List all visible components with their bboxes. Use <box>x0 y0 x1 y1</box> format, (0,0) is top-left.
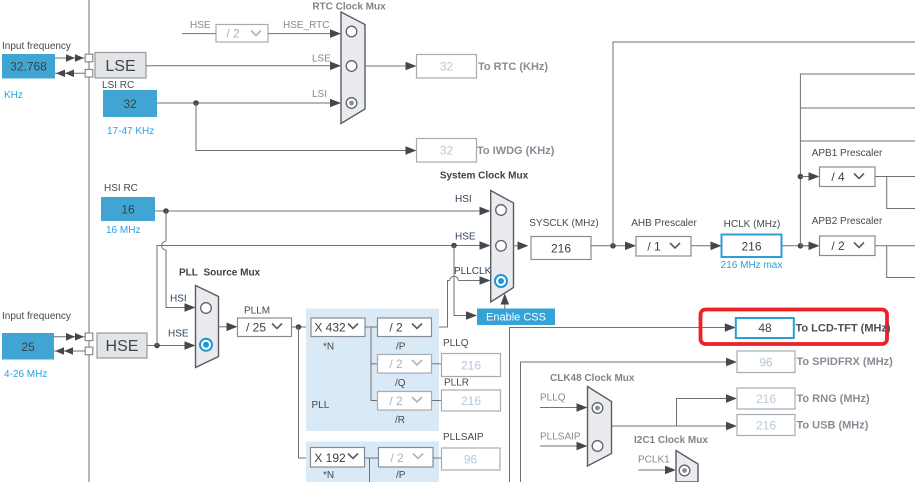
wire PLLSAIR to LCD-TFT <box>510 323 736 482</box>
svg-text:32: 32 <box>440 144 454 158</box>
wire PLLCLK to system mux <box>432 276 491 327</box>
wire SYSCLK to AHB prescaler <box>591 242 636 251</box>
wire to FCLK <box>800 140 915 142</box>
PLL /R dropdown <box>378 392 432 411</box>
svg-text:/ 4: / 4 <box>831 170 845 184</box>
svg-text:216 MHz max: 216 MHz max <box>721 260 783 271</box>
wire CLK48 mux output <box>612 425 727 427</box>
svg-text:32: 32 <box>123 97 137 111</box>
svg-text:PLLQ: PLLQ <box>443 338 469 349</box>
wire HSI branch to PLL mux <box>162 211 196 312</box>
wire LSI to RTC mux <box>157 99 341 108</box>
wire APB2 peripheral clocks <box>875 245 915 247</box>
svg-text:216: 216 <box>551 242 571 256</box>
wire HSE to PLL mux <box>147 341 196 350</box>
svg-text:216: 216 <box>741 240 761 254</box>
svg-text:PCLK1: PCLK1 <box>638 455 670 466</box>
HSE pin ports <box>85 333 93 355</box>
LSE input frequency box 32.768 <box>2 54 55 79</box>
svg-text:HSE: HSE <box>168 329 189 340</box>
svg-text:/ 1: / 1 <box>647 240 661 254</box>
svg-text:Input frequency: Input frequency <box>2 311 71 322</box>
wire PCLK1 to I2C1 mux <box>639 466 677 475</box>
wire HSE to system mux <box>157 241 491 345</box>
wire to RNG <box>677 394 738 426</box>
svg-text:/P: /P <box>396 342 406 353</box>
wire HSE_RTC to RTC mux <box>268 29 341 38</box>
svg-text:17-47 KHz: 17-47 KHz <box>107 126 154 137</box>
wire PLLM to PLLSAI <box>299 327 312 458</box>
PLL /Q dropdown <box>378 355 432 374</box>
wire Q to box <box>432 363 442 365</box>
wire R to box <box>432 400 442 402</box>
svg-text:PLLR: PLLR <box>444 378 469 389</box>
wire HCLK output <box>782 243 810 249</box>
svg-text:216: 216 <box>756 419 776 433</box>
svg-text:X 432: X 432 <box>314 321 346 335</box>
wire LSE osc out <box>55 54 85 62</box>
svg-text:216: 216 <box>461 359 481 373</box>
svg-text:LSI: LSI <box>312 89 327 100</box>
LCD-TFT box 48 <box>736 318 794 338</box>
RTC output box 32 <box>417 55 477 79</box>
wire to APB2 prescaler <box>800 242 819 251</box>
svg-text:AHB Prescaler: AHB Prescaler <box>631 218 697 229</box>
svg-text:32: 32 <box>440 60 454 74</box>
svg-text:To IWDG (KHz): To IWDG (KHz) <box>477 145 555 157</box>
wire PLL mux output <box>219 323 238 332</box>
svg-text:/ 2: / 2 <box>389 321 403 335</box>
PLLR box 216 <box>442 390 501 411</box>
red highlight box <box>701 310 888 345</box>
wire HCLK top distribution <box>613 42 915 246</box>
svg-text:To LCD-TFT (MHz): To LCD-TFT (MHz) <box>796 323 891 335</box>
wire APB2 timer clocks <box>887 246 915 278</box>
CLK48 Clock Mux body <box>588 387 612 467</box>
svg-text:HSI RC: HSI RC <box>104 183 138 194</box>
svg-text:Enable CSS: Enable CSS <box>486 312 546 324</box>
svg-text:X 192: X 192 <box>314 451 346 465</box>
svg-text:16 MHz: 16 MHz <box>106 225 140 236</box>
RTC HSE divider /2 dropdown <box>216 25 268 43</box>
svg-text:/ 2: / 2 <box>226 27 240 41</box>
wire LSE osc in <box>55 70 85 78</box>
IWDG output box 32 <box>417 139 477 163</box>
Enable CSS button <box>477 309 555 326</box>
svg-text:LSE: LSE <box>105 58 135 75</box>
svg-text:/P: /P <box>396 470 406 481</box>
svg-text:I2C1 Clock Mux: I2C1 Clock Mux <box>634 435 708 446</box>
wire PLLM to PLL <box>292 324 312 330</box>
SPIDFRX box 96 <box>737 351 795 373</box>
svg-text:HSE: HSE <box>106 338 139 355</box>
wire CSS to mux <box>501 294 510 309</box>
svg-text:48: 48 <box>758 321 772 335</box>
svg-text:/ 2: / 2 <box>389 357 403 371</box>
svg-text:16: 16 <box>121 203 135 217</box>
wire APB1 timer clocks <box>887 177 915 209</box>
svg-text:HCLK (MHz): HCLK (MHz) <box>724 219 781 230</box>
APB2 Prescaler dropdown /2 <box>820 236 876 256</box>
wire to SPIDFRX <box>521 358 738 482</box>
svg-text:25: 25 <box>21 340 35 354</box>
wire HSE osc in <box>54 347 85 355</box>
wire HSE osc out <box>54 333 85 341</box>
wire to Cortex system timer <box>800 107 915 109</box>
svg-text:PLL Source Mux: PLL Source Mux <box>179 268 261 279</box>
SYSCLK box 216 <box>531 237 591 260</box>
svg-text:RTC Clock Mux: RTC Clock Mux <box>312 2 386 13</box>
PLL /P dropdown <box>378 318 432 337</box>
PLLQ box 216 <box>442 354 501 377</box>
svg-text:216: 216 <box>461 394 481 408</box>
svg-text:APB1 Prescaler: APB1 Prescaler <box>812 148 883 159</box>
HSI RC box 16 <box>101 197 155 221</box>
svg-text:To RNG (MHz): To RNG (MHz) <box>797 393 870 405</box>
APB1 Prescaler dropdown /4 <box>820 167 876 187</box>
svg-text:/ 2: / 2 <box>390 451 404 465</box>
wire LSI to IWDG <box>196 103 417 155</box>
svg-text:KHz: KHz <box>4 90 23 101</box>
svg-text:216: 216 <box>756 392 776 406</box>
wire HSE branch to Enable CSS <box>454 246 477 320</box>
wire AHB to HCLK <box>691 242 722 251</box>
PLLSAI block background <box>306 442 439 482</box>
svg-text:PLLQ: PLLQ <box>540 393 566 404</box>
wire RTC mux output <box>365 62 417 71</box>
svg-text:CLK48 Clock Mux: CLK48 Clock Mux <box>550 373 635 384</box>
LSE oscillator box <box>95 53 146 79</box>
wire HSI to system mux <box>155 207 491 216</box>
PLLSAI *N dropdown X192 <box>311 448 365 468</box>
PLL Source Mux body <box>196 286 219 368</box>
svg-text:To SPIDFRX (MHz): To SPIDFRX (MHz) <box>797 356 894 368</box>
wire PLLQ stub to CLK48 mux <box>540 403 588 412</box>
HSE input frequency box 25 <box>2 333 54 360</box>
svg-text:4-26 MHz: 4-26 MHz <box>4 369 47 380</box>
svg-text:System Clock Mux: System Clock Mux <box>440 171 529 182</box>
svg-text:PLLSAIP: PLLSAIP <box>540 432 581 443</box>
LSI RC box 32 <box>103 90 157 117</box>
AHB Prescaler dropdown /1 <box>636 237 691 257</box>
PLL *N dropdown X432 <box>311 318 365 337</box>
svg-text:PLLSAIP: PLLSAIP <box>443 432 484 443</box>
svg-text:/ 2: / 2 <box>389 394 403 408</box>
wire HCLK riser <box>800 74 915 246</box>
svg-text:LSI RC: LSI RC <box>102 80 134 91</box>
wire to APB1 prescaler <box>798 172 820 181</box>
svg-text:96: 96 <box>464 453 478 467</box>
svg-text:HSE_RTC: HSE_RTC <box>283 20 330 31</box>
RTC Clock Mux body <box>341 12 365 124</box>
System Clock Mux body <box>491 191 514 303</box>
svg-text:/ 2: / 2 <box>831 239 845 253</box>
I2C1 Clock Mux body <box>676 451 698 482</box>
RNG box 216 <box>737 388 795 409</box>
svg-text:*N: *N <box>323 470 334 481</box>
wire SAI N to P <box>365 458 379 482</box>
wire HSE stub to RTC divider <box>182 33 216 35</box>
USB box 216 <box>737 415 795 436</box>
chip boundary <box>88 0 90 482</box>
svg-text:HSI: HSI <box>455 194 472 205</box>
svg-text:/R: /R <box>395 415 405 426</box>
wire N to dividers <box>365 327 378 401</box>
wire to USB arrow <box>726 422 737 431</box>
svg-text:/Q: /Q <box>395 378 406 389</box>
svg-text:96: 96 <box>759 356 773 370</box>
PLLM dropdown /25 <box>238 318 292 337</box>
svg-text:SYSCLK (MHz): SYSCLK (MHz) <box>529 218 598 229</box>
LSE pin ports <box>85 54 93 77</box>
HCLK box 216 <box>722 235 782 258</box>
svg-text:To USB (MHz): To USB (MHz) <box>797 420 869 432</box>
wire system mux output <box>514 242 529 251</box>
wire SAI P to box <box>433 457 442 459</box>
HSE oscillator box <box>97 333 147 358</box>
svg-text:PLL: PLL <box>312 400 330 411</box>
svg-text:Input frequency: Input frequency <box>2 41 71 52</box>
svg-text:HSE: HSE <box>455 232 476 243</box>
svg-text:32.768: 32.768 <box>10 60 47 74</box>
wire LSE to RTC mux <box>146 62 341 71</box>
svg-text:/ 25: / 25 <box>246 321 266 335</box>
svg-text:LSE: LSE <box>312 54 331 65</box>
svg-text:To RTC (KHz): To RTC (KHz) <box>478 61 548 73</box>
svg-text:APB2 Prescaler: APB2 Prescaler <box>812 216 883 227</box>
svg-text:PLLM: PLLM <box>244 306 270 317</box>
svg-text:PLLCLK: PLLCLK <box>454 266 492 277</box>
PLLSAI /P dropdown <box>379 448 434 468</box>
svg-text:HSI: HSI <box>170 294 187 305</box>
PLL block background <box>306 309 439 432</box>
svg-text:HSE: HSE <box>190 20 211 31</box>
wire APB1 peripheral clocks <box>875 176 915 178</box>
wire PLLSAIP stub to CLK48 mux <box>540 442 588 451</box>
PLLSAIP box 96 <box>442 448 501 470</box>
svg-text:*N: *N <box>323 342 334 353</box>
